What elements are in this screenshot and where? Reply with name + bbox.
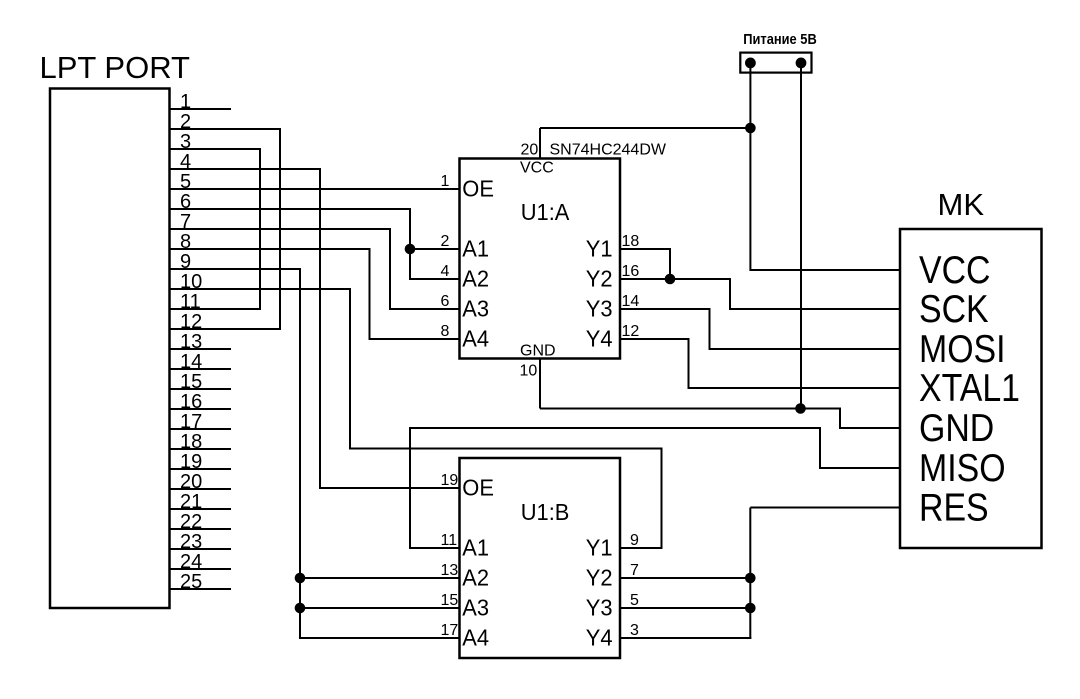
svg-text:A2: A2 (462, 266, 489, 292)
pin 10 (LPT PORT) (170, 288, 351, 290)
svg-text:22: 22 (180, 511, 202, 533)
svg-text:Y2: Y2 (586, 565, 613, 591)
wire net VCC (749, 63, 751, 271)
wire pin9 to U1:B A2,A3,A4 (299, 268, 301, 639)
svg-text:A3: A3 (462, 296, 489, 322)
wire net SCK (Y1,Y2 to MK) (620, 248, 671, 250)
svg-text:14: 14 (180, 351, 202, 373)
svg-text:Y2: Y2 (586, 266, 613, 292)
svg-text:18: 18 (180, 431, 202, 453)
svg-text:MISO: MISO (919, 446, 1006, 490)
svg-text:MOSI: MOSI (919, 327, 1006, 371)
wire pin6 to U1:A A1,A2 (409, 208, 411, 280)
svg-text:13: 13 (180, 331, 202, 353)
svg-text:7: 7 (180, 211, 191, 233)
svg-text:MK: MK (938, 187, 985, 222)
pin 20 (LPT PORT) (170, 488, 232, 490)
wire net RES (U1:B Y2,Y3,Y4 to MK) (620, 577, 750, 579)
svg-text:4: 4 (441, 263, 450, 280)
pin 15 (LPT PORT) (170, 388, 232, 390)
power pin VCC (Питание 5В) (745, 58, 756, 69)
svg-text:5: 5 (180, 171, 191, 193)
svg-text:10: 10 (520, 363, 538, 380)
svg-text:OE: OE (462, 176, 494, 202)
svg-text:1: 1 (441, 173, 450, 190)
connector MK body (900, 229, 1042, 548)
svg-text:A3: A3 (462, 595, 489, 621)
svg-text:Y1: Y1 (586, 535, 613, 561)
pin 12 (LPT PORT) (170, 328, 281, 330)
svg-text:8: 8 (180, 231, 191, 253)
svg-text:12: 12 (622, 323, 640, 340)
power pin GND (Питание 5В) (796, 58, 807, 69)
svg-text:Y3: Y3 (586, 595, 613, 621)
svg-text:6: 6 (180, 191, 191, 213)
svg-text:Y1: Y1 (586, 236, 613, 262)
pin 24 (LPT PORT) (170, 568, 232, 570)
pin 10 GND (U1:A) (539, 359, 541, 409)
svg-text:16: 16 (180, 391, 202, 413)
svg-text:25: 25 (180, 571, 202, 593)
svg-text:Y4: Y4 (586, 326, 613, 352)
svg-text:A1: A1 (462, 236, 489, 262)
wire net MISO (MK to U1:B A1) (409, 428, 411, 549)
svg-text:Y4: Y4 (586, 625, 613, 651)
pin 1 (LPT PORT) (170, 108, 232, 110)
junction RES/Y3 (745, 603, 756, 614)
svg-text:20: 20 (521, 141, 539, 158)
svg-text:9: 9 (630, 532, 639, 549)
pin 3 (LPT PORT) (170, 148, 261, 150)
pin 17 (LPT PORT) (170, 428, 232, 430)
pin 13 (LPT PORT) (170, 348, 232, 350)
svg-text:4: 4 (180, 151, 191, 173)
svg-text:15: 15 (441, 592, 459, 609)
svg-text:23: 23 (180, 531, 202, 553)
buffer U1:B body (460, 458, 621, 658)
svg-text:1: 1 (180, 91, 191, 113)
svg-text:GND: GND (919, 406, 994, 450)
svg-text:Питание 5В: Питание 5В (743, 31, 817, 48)
junction pin6/A1 (405, 244, 416, 255)
svg-text:9: 9 (180, 251, 191, 273)
svg-text:17: 17 (441, 622, 459, 639)
svg-text:11: 11 (180, 291, 201, 313)
svg-text:OE: OE (462, 475, 494, 501)
svg-text:3: 3 (630, 622, 639, 639)
svg-text:5: 5 (630, 592, 639, 609)
pin 18 (LPT PORT) (170, 448, 232, 450)
junction Y1/Y2 (665, 274, 676, 285)
pin 22 (LPT PORT) (170, 528, 232, 530)
wire net pin2-pin12 (279, 128, 281, 330)
wire net XTAL1 (Y4 to MK) (620, 338, 690, 340)
pin 19 (LPT PORT) (170, 468, 232, 470)
junction RES/Y2 (745, 573, 756, 584)
pin 16 (LPT PORT) (170, 408, 232, 410)
junction pin9/A3 (295, 603, 306, 614)
wire pin7 to U1:A A3 (389, 228, 391, 310)
svg-text:GND: GND (520, 342, 556, 359)
svg-text:3: 3 (180, 131, 191, 153)
svg-text:VCC: VCC (919, 248, 991, 292)
pin 11 (LPT PORT) (170, 308, 261, 310)
svg-text:U1:B: U1:B (521, 499, 570, 525)
svg-text:6: 6 (441, 293, 450, 310)
pin 6 (LPT PORT) (170, 208, 411, 210)
pin 20 VCC (U1:A) (539, 128, 541, 159)
svg-text:A1: A1 (462, 535, 489, 561)
svg-text:A4: A4 (462, 625, 489, 651)
wire pin8 to U1:A A4 (369, 248, 371, 340)
wire pin4 to U1:B OE (319, 168, 321, 489)
wire net MOSI (Y3 to MK) (620, 308, 711, 310)
pin 7 (LPT PORT) (170, 228, 391, 230)
svg-text:20: 20 (180, 471, 202, 493)
svg-text:A2: A2 (462, 565, 489, 591)
svg-text:RES: RES (919, 486, 989, 530)
svg-text:15: 15 (180, 371, 202, 393)
svg-text:19: 19 (441, 472, 459, 489)
svg-text:SCK: SCK (919, 287, 989, 331)
junction GND/power pin (795, 403, 806, 414)
svg-text:16: 16 (622, 263, 640, 280)
svg-text:17: 17 (180, 411, 202, 433)
svg-text:18: 18 (622, 233, 640, 250)
svg-text:24: 24 (180, 551, 202, 573)
pin 23 (LPT PORT) (170, 548, 232, 550)
pin 9 (LPT PORT) (170, 268, 301, 270)
svg-text:13: 13 (441, 562, 459, 579)
svg-text:11: 11 (441, 532, 458, 549)
svg-text:U1:A: U1:A (521, 199, 571, 225)
pin 4 (LPT PORT) (170, 168, 321, 170)
svg-text:12: 12 (180, 311, 202, 333)
svg-text:21: 21 (180, 491, 202, 513)
connector Питание 5В body (740, 53, 811, 73)
svg-text:XTAL1: XTAL1 (919, 366, 1020, 410)
svg-text:8: 8 (441, 323, 450, 340)
junction pin9/A2 (295, 573, 306, 584)
buffer U1:A SN74HC244DW body (460, 159, 621, 359)
svg-text:Y3: Y3 (586, 296, 613, 322)
svg-text:7: 7 (630, 562, 639, 579)
pin 14 (LPT PORT) (170, 368, 232, 370)
svg-text:LPT PORT: LPT PORT (40, 50, 191, 85)
wire net GND (800, 63, 802, 410)
junction VCC/U1:A pin20 (745, 123, 756, 134)
svg-text:14: 14 (622, 293, 640, 310)
wire pin10 to U1:B Y1 (349, 288, 351, 450)
pin 8 (LPT PORT) (170, 248, 370, 250)
svg-text:19: 19 (180, 451, 202, 473)
svg-text:2: 2 (180, 111, 191, 133)
svg-text:10: 10 (180, 271, 202, 293)
svg-text:VCC: VCC (520, 160, 554, 177)
pin 2 (LPT PORT) (170, 128, 281, 130)
pin 25 (LPT PORT) (170, 588, 232, 590)
pin 5 (LPT PORT) (170, 188, 460, 190)
pin 21 (LPT PORT) (170, 508, 232, 510)
svg-text:SN74HC244DW: SN74HC244DW (550, 141, 667, 158)
wire net pin3-pin11 (259, 148, 261, 310)
connector LPT PORT body (50, 89, 170, 609)
svg-text:A4: A4 (462, 326, 489, 352)
svg-text:2: 2 (441, 233, 450, 250)
